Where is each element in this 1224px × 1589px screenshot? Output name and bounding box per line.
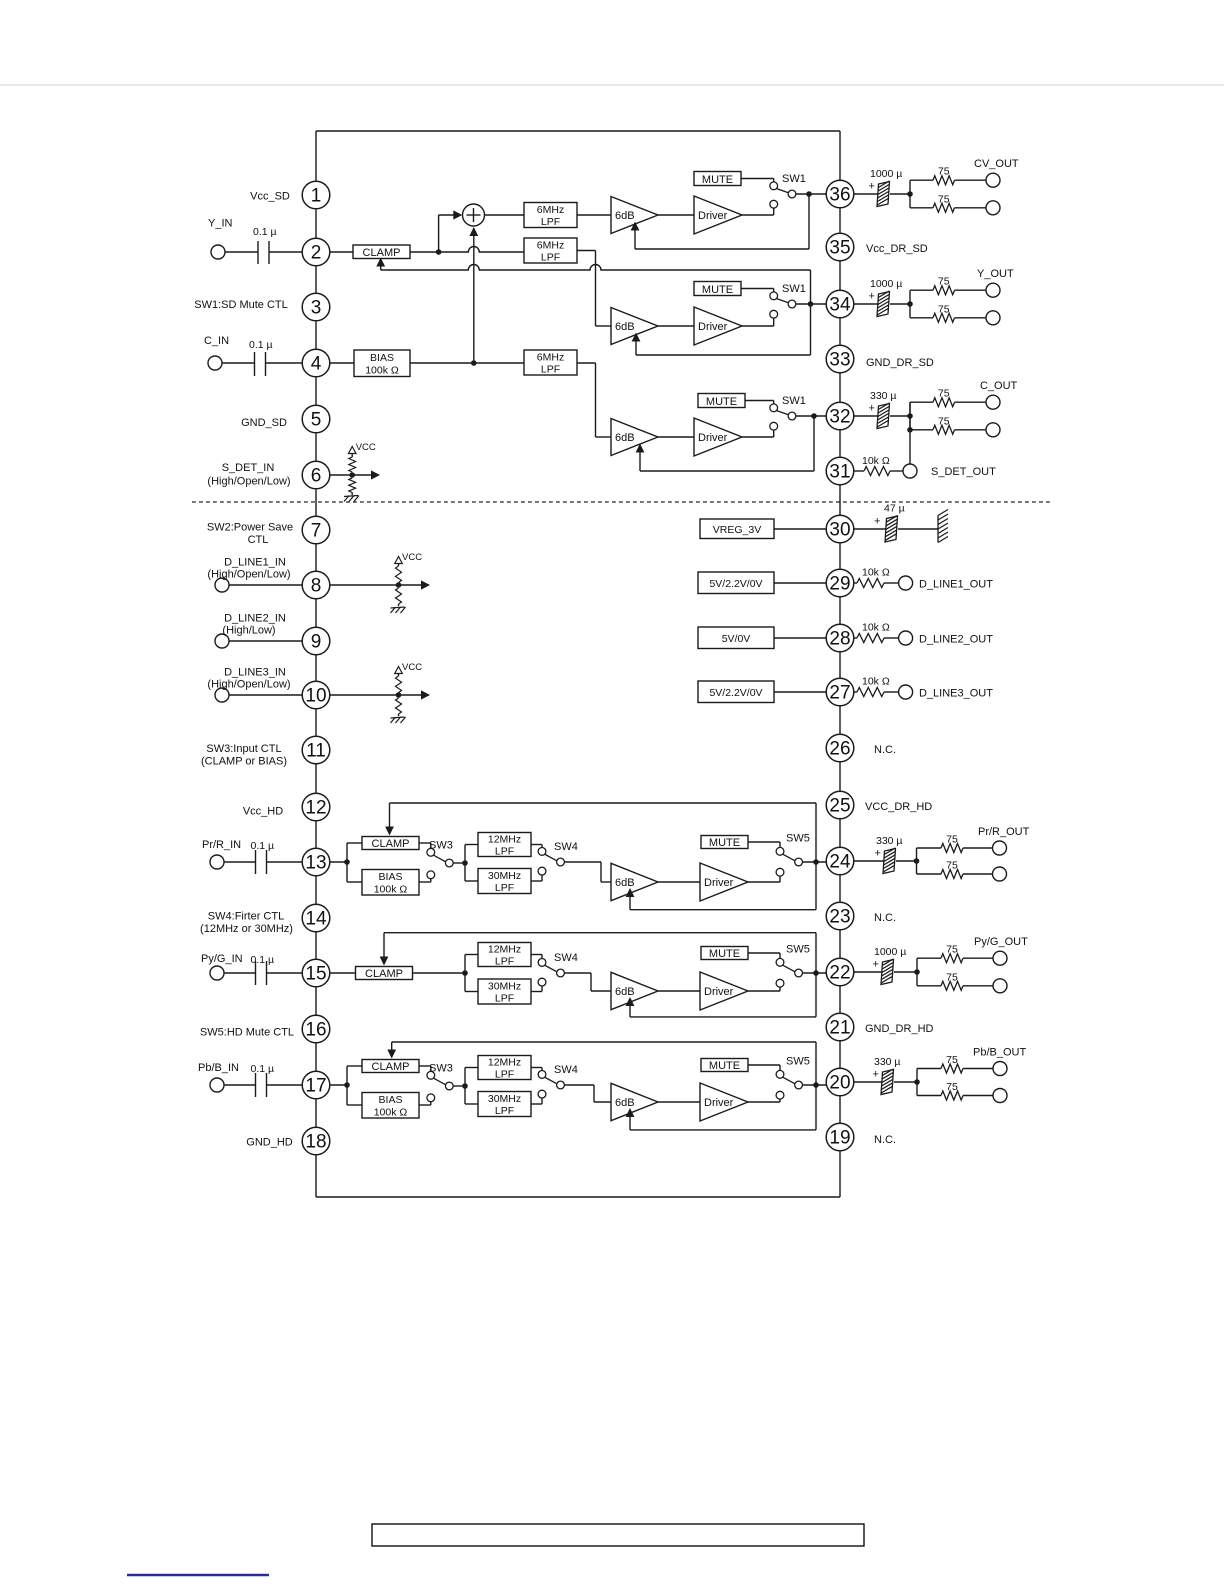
svg-text:SW4: SW4 xyxy=(554,841,578,853)
wire 6dB to Driver (HD) xyxy=(658,881,700,883)
svg-text:6MHz: 6MHz xyxy=(537,239,564,251)
svg-text:D_LINE3_OUT: D_LINE3_OUT xyxy=(919,688,993,700)
op-amp 6dB (CV channel) xyxy=(611,197,658,234)
wire C_IN to C2 xyxy=(222,362,255,364)
wire pin to CLAMP/BIAS split xyxy=(330,1084,347,1086)
wire box to pin (D_LINE3_OUT) xyxy=(774,691,826,693)
node Py/G_IN terminal xyxy=(210,966,224,980)
pin 6 xyxy=(302,461,330,489)
svg-text:Driver: Driver xyxy=(704,877,734,889)
resistor 75 top (pin22) xyxy=(941,954,963,963)
pin 33 xyxy=(826,345,854,373)
svg-text:10: 10 xyxy=(305,686,326,707)
svg-text:13: 13 xyxy=(305,853,326,874)
capacitor 47u xyxy=(885,516,898,542)
svg-text:9: 9 xyxy=(311,632,322,653)
svg-text:3: 3 xyxy=(311,298,322,319)
op-amp Driver (HD) xyxy=(700,1083,748,1121)
svg-text:36: 36 xyxy=(829,185,850,206)
switch SW1 (CV channel) xyxy=(770,182,778,190)
pin 25 xyxy=(826,791,854,819)
wire clamp feedback (HD top) xyxy=(390,802,817,804)
capacitor 330 &#181; (output) (pin20) xyxy=(881,1070,894,1095)
svg-text:10k Ω: 10k Ω xyxy=(862,622,890,634)
scan artifact band xyxy=(0,84,1224,86)
node output junction (pin32) xyxy=(907,413,913,419)
wire summer to 6MHz LPF1 xyxy=(485,214,525,216)
op-amp Driver (HD) xyxy=(700,863,748,901)
svg-text:LPF: LPF xyxy=(495,992,514,1004)
wire feedback right edge (HD) xyxy=(815,803,817,910)
block BIAS 100k (HD) xyxy=(362,870,419,896)
svg-text:Pr/R_OUT: Pr/R_OUT xyxy=(978,826,1030,838)
wire 10k to terminal (D_LINE3_OUT) xyxy=(884,691,899,693)
power VCC pullup (D_LINE1_IN) xyxy=(395,557,403,564)
wire pin to 10k (D_LINE3_OUT) xyxy=(854,691,857,693)
node D_LINE2_IN terminal xyxy=(215,634,229,648)
resistor 75 top (pin36) xyxy=(933,176,955,185)
svg-text:LPF: LPF xyxy=(541,363,560,375)
switch SW3 xyxy=(427,848,435,856)
svg-text:75: 75 xyxy=(946,860,958,872)
wire cap to pin (Pr/R_IN) xyxy=(267,861,303,863)
wire C1 to pin2 xyxy=(269,251,302,253)
pin 28 xyxy=(826,624,854,652)
pin 12 xyxy=(302,793,330,821)
wire SW5 common to pin xyxy=(803,861,827,863)
switch SW5 xyxy=(776,958,784,966)
pin 32 xyxy=(826,402,854,430)
wire cap to output junction (pin24) xyxy=(896,860,917,862)
wire clamp feedback (HD top) xyxy=(392,1041,816,1043)
wire junction to 75R bottom (pin34) xyxy=(910,317,933,319)
wire feedback CV (A1) xyxy=(808,194,810,249)
wire CLAMP to LPF junction xyxy=(413,972,466,974)
svg-text:GND_SD: GND_SD xyxy=(241,417,287,429)
wire 6dB to Driver (CV channel) xyxy=(658,214,694,216)
node input split junction xyxy=(344,859,350,865)
svg-text:16: 16 xyxy=(305,1020,326,1041)
wire split to CLAMP xyxy=(346,843,348,882)
block BIAS 100k (C path) xyxy=(354,350,410,377)
svg-text:LPF: LPF xyxy=(495,955,514,967)
svg-text:SW1: SW1 xyxy=(782,395,806,407)
svg-text:Py/G_IN: Py/G_IN xyxy=(201,953,243,965)
pin 19 xyxy=(826,1123,854,1151)
capacitor 1000 &#181; (output) (pin36) xyxy=(877,182,890,207)
svg-text:330 µ: 330 µ xyxy=(876,835,903,847)
node output junction (HD) xyxy=(813,859,819,865)
wire Py/G_IN to cap xyxy=(224,972,256,974)
pin 21 xyxy=(826,1013,854,1041)
svg-text:14: 14 xyxy=(305,909,327,930)
svg-text:CLAMP: CLAMP xyxy=(363,247,401,259)
svg-text:SW4: SW4 xyxy=(554,1064,578,1076)
wire SW4 common to 6dB amp xyxy=(564,1084,594,1086)
resistor 75 bottom (pin32) xyxy=(933,425,955,434)
svg-text:1000 µ: 1000 µ xyxy=(870,278,902,290)
wire S_DET_OUT up to C output node xyxy=(909,402,911,464)
svg-text:330 µ: 330 µ xyxy=(874,1056,901,1068)
wire D_LINE2_IN to pin xyxy=(229,640,302,642)
svg-text:Pr/R_IN: Pr/R_IN xyxy=(202,839,241,851)
svg-text:(High/Open/Low): (High/Open/Low) xyxy=(207,569,290,581)
svg-text:6dB: 6dB xyxy=(615,986,635,998)
svg-text:VCC: VCC xyxy=(356,442,376,453)
wire SW1 common to pin (Y channel) xyxy=(796,303,826,305)
pin 22 xyxy=(826,958,854,986)
node Pb/B_OUT terminal bottom (pin20) xyxy=(993,1089,1007,1103)
block 6MHz LPF (C path) xyxy=(524,350,577,375)
svg-text:BIAS: BIAS xyxy=(379,1094,403,1106)
arrow feedback into A3 xyxy=(636,444,645,453)
svg-text:D_LINE2_OUT: D_LINE2_OUT xyxy=(919,634,993,646)
node C_IN terminal xyxy=(208,356,222,370)
resistor 10k (S_DET_OUT) xyxy=(864,467,890,476)
resistor 75 top (pin24) xyxy=(941,844,963,853)
svg-text:(12MHz or 30MHz): (12MHz or 30MHz) xyxy=(200,923,293,935)
IC package outline / pin column wires xyxy=(315,131,317,1197)
resistor 75 bottom (pin20) xyxy=(941,1091,963,1100)
svg-text:75: 75 xyxy=(938,276,950,288)
pin 15 xyxy=(302,959,330,987)
wire cap to pin (Pb/B_IN) xyxy=(267,1084,303,1086)
svg-text:Driver: Driver xyxy=(698,432,728,444)
op-amp Driver (C channel) xyxy=(694,418,742,456)
ground pulldown (D_LINE3_IN) xyxy=(398,714,400,716)
wire gain feedback Y (A2) xyxy=(636,354,811,356)
capacitor 0.1u (Pr/R_IN) xyxy=(255,850,257,874)
wire MUTE to SW5 top contact xyxy=(748,952,780,954)
svg-text:CLAMP: CLAMP xyxy=(372,1061,410,1073)
node C output junction xyxy=(811,413,817,419)
capacitor 1000 &#181; (output) (pin22) xyxy=(881,960,894,985)
pin 27 xyxy=(826,678,854,706)
node D_LINE1_IN terminal xyxy=(215,578,229,592)
svg-text:Driver: Driver xyxy=(704,986,734,998)
block CLAMP (HD) xyxy=(362,837,419,850)
summing node U1 (+) xyxy=(463,204,485,226)
pin 31 xyxy=(826,457,854,485)
resistor 75 bottom (pin34) xyxy=(933,313,955,322)
svg-text:0.1 µ: 0.1 µ xyxy=(251,1063,275,1075)
wire split to BIAS xyxy=(347,881,362,883)
wire box to pin (D_LINE2_OUT) xyxy=(774,637,826,639)
block 5V/2.2V/0V (D_LINE3_OUT) xyxy=(698,681,774,703)
op-amp 6dB (HD) xyxy=(611,1083,658,1120)
arrow clamp feedback into CLAMP top xyxy=(387,1050,396,1059)
node D_LINE2_OUT terminal xyxy=(899,631,913,645)
svg-text:SW3:Input CTL: SW3:Input CTL xyxy=(206,743,281,755)
svg-text:26: 26 xyxy=(829,739,850,760)
node output junction (pin34) xyxy=(907,301,913,307)
arrow clamp feedback into CLAMP xyxy=(376,258,385,267)
node on C top branch xyxy=(907,427,913,433)
arrow internal (D_LINE3_IN) xyxy=(421,690,430,699)
footer rectangle xyxy=(372,1524,864,1546)
wire cap to output junction (pin36) xyxy=(890,193,910,195)
wire gain feedback (HD bottom) xyxy=(630,909,816,911)
op-amp Driver (Y channel) xyxy=(694,307,742,345)
pin 3 xyxy=(302,293,330,321)
svg-text:23: 23 xyxy=(829,907,850,928)
node C_OUT terminal top (pin32) xyxy=(986,395,1000,409)
wire Driver to SW5 bottom contact xyxy=(748,881,780,883)
SD/Other section separator (dashed) xyxy=(192,501,1051,503)
block MUTE (C channel) xyxy=(698,394,745,408)
svg-text:Pb/B_OUT: Pb/B_OUT xyxy=(973,1047,1026,1059)
wire CLAMP out with junction riser xyxy=(410,251,439,253)
resistor 75 bottom (pin24) xyxy=(941,870,963,879)
wire SW1 common to pin (C channel) xyxy=(796,415,826,417)
wire SW4 common to 6dB amp xyxy=(564,972,591,974)
block 6MHz LPF (CV path) xyxy=(524,203,577,228)
svg-text:12MHz: 12MHz xyxy=(488,943,521,955)
pin 29 xyxy=(826,569,854,597)
svg-text:10k Ω: 10k Ω xyxy=(862,676,890,688)
wire junction to 75R bottom (pin22) xyxy=(917,985,941,987)
svg-text:GND_DR_HD: GND_DR_HD xyxy=(865,1023,934,1035)
svg-text:+: + xyxy=(873,1069,879,1081)
svg-text:BIAS: BIAS xyxy=(370,352,394,364)
wire pin2 to CLAMP xyxy=(330,251,353,253)
svg-text:LPF: LPF xyxy=(495,1068,514,1080)
svg-text:75: 75 xyxy=(946,971,958,983)
wire cap to output junction (pin34) xyxy=(890,303,910,305)
svg-text:D_LINE1_OUT: D_LINE1_OUT xyxy=(919,579,993,591)
wire gain feedback (HD bottom) xyxy=(630,1129,816,1131)
svg-text:75: 75 xyxy=(938,193,950,205)
capacitor 1000 &#181; (output) (pin34) xyxy=(877,292,890,317)
switch SW1 (C channel) xyxy=(770,404,778,412)
svg-text:27: 27 xyxy=(829,683,850,704)
wire pin to internal (D_LINE3_IN) xyxy=(330,694,423,696)
op-amp 6dB (HD) xyxy=(611,863,658,900)
pin 35 xyxy=(826,233,854,261)
wire pin to 1000 &#181; cap (pin34) xyxy=(854,303,878,305)
svg-text:C_OUT: C_OUT xyxy=(980,380,1018,392)
node divider junction (D_LINE3_IN) xyxy=(396,692,402,698)
pin 7 xyxy=(302,516,330,544)
svg-text:SW1:SD Mute CTL: SW1:SD Mute CTL xyxy=(194,299,288,311)
wire MUTE to SW1 top contact (C channel) xyxy=(745,400,774,402)
wire SW1 common to pin (CV channel) xyxy=(796,193,826,195)
node Y_OUT terminal bottom (pin34) xyxy=(986,311,1000,325)
node Pr/R_OUT terminal top (pin24) xyxy=(993,841,1007,855)
arrow feedback into A1 xyxy=(631,222,640,231)
wire pin to 1000 &#181; cap (pin22) xyxy=(854,971,882,973)
svg-text:CTL: CTL xyxy=(248,534,269,546)
svg-text:15: 15 xyxy=(305,964,326,985)
node LPF split junction xyxy=(462,970,468,976)
block MUTE (HD) xyxy=(701,836,748,849)
wire Driver to SW1 bottom contact (CV channel) xyxy=(742,214,774,216)
svg-text:CLAMP: CLAMP xyxy=(372,838,410,850)
svg-text:+: + xyxy=(874,516,880,528)
svg-text:Pb/B_IN: Pb/B_IN xyxy=(198,1062,239,1074)
node output junction (HD) xyxy=(813,1082,819,1088)
svg-text:75: 75 xyxy=(946,1081,958,1093)
arrow into summer left input xyxy=(453,210,462,219)
wire 6dB to Driver (Y channel) xyxy=(658,325,694,327)
svg-text:20: 20 xyxy=(829,1073,850,1094)
svg-text:75: 75 xyxy=(938,388,950,400)
svg-text:SW5: SW5 xyxy=(786,944,810,956)
block 5V/2.2V/0V (D_LINE1_OUT) xyxy=(698,572,774,594)
svg-text:35: 35 xyxy=(829,238,850,259)
resistor 10k (D_LINE2_OUT) xyxy=(857,634,884,643)
capacitor C2 0.1u (C_IN) xyxy=(254,352,256,376)
wire 10k to terminal (D_LINE2_OUT) xyxy=(884,637,899,639)
svg-text:VCC: VCC xyxy=(402,662,422,673)
svg-text:5: 5 xyxy=(311,410,322,431)
svg-text:34: 34 xyxy=(829,295,851,316)
svg-text:LPF: LPF xyxy=(541,216,560,228)
arrow internal (D_LINE1_IN) xyxy=(421,580,430,589)
wire box to pin (D_LINE1_OUT) xyxy=(774,582,826,584)
node Pb/B_OUT terminal top (pin20) xyxy=(993,1062,1007,1076)
node CV_OUT terminal top (pin36) xyxy=(986,173,1000,187)
switch SW5 xyxy=(776,1070,784,1078)
resistor pullup (D_LINE3_IN) xyxy=(396,676,402,693)
svg-text:30MHz: 30MHz xyxy=(488,980,521,992)
wire Pb/B_IN to cap xyxy=(224,1084,256,1086)
svg-text:SW1: SW1 xyxy=(782,283,806,295)
wire junction to 75R bottom (pin24) xyxy=(917,873,942,875)
pin 13 xyxy=(302,848,330,876)
footer blue underline xyxy=(127,1574,269,1577)
svg-text:D_LINE2_IN: D_LINE2_IN xyxy=(224,613,286,625)
block MUTE (HD) xyxy=(701,947,748,960)
wire LPF3 to 6dB amp A3 xyxy=(577,362,596,364)
wire junction to 75R bottom (pin20) xyxy=(917,1095,941,1097)
svg-text:6dB: 6dB xyxy=(615,877,635,889)
op-amp Driver (CV channel) xyxy=(694,196,742,234)
capacitor C1 0.1u (Y_IN) xyxy=(257,241,259,264)
wire pin to 330 &#181; cap (pin20) xyxy=(854,1081,882,1083)
wire junction to 75R top (pin36) xyxy=(909,180,911,208)
svg-text:30MHz: 30MHz xyxy=(488,870,521,882)
wire 30MHz LPF to SW4 bottom contact xyxy=(531,880,542,882)
node output junction (pin22) xyxy=(914,969,920,975)
wire pin30 to 47u cap xyxy=(854,528,886,530)
svg-text:31: 31 xyxy=(829,462,850,483)
switch SW1 (Y channel) xyxy=(770,292,778,300)
pin 17 xyxy=(302,1071,330,1099)
svg-text:22: 22 xyxy=(829,963,850,984)
wire junction to 75R top (pin22) xyxy=(916,958,918,986)
node output junction (HD) xyxy=(813,970,819,976)
svg-text:+: + xyxy=(873,959,879,971)
svg-text:100k Ω: 100k Ω xyxy=(374,883,408,895)
wire junction to 75R bottom (pin36) xyxy=(910,207,933,209)
svg-text:LPF: LPF xyxy=(495,1105,514,1117)
svg-text:32: 32 xyxy=(829,407,850,428)
svg-text:29: 29 xyxy=(829,574,850,595)
pin 26 xyxy=(826,734,854,762)
svg-text:CV_OUT: CV_OUT xyxy=(974,158,1019,170)
arrow feedback into A2 xyxy=(632,333,641,342)
resistor 10k (D_LINE1_OUT) xyxy=(857,579,884,588)
arrow gain feedback into 6dB xyxy=(626,997,635,1006)
wire CLAMP to SW3 top contact xyxy=(419,842,431,844)
wire junction to 12MHz LPF xyxy=(465,954,478,956)
svg-text:C_IN: C_IN xyxy=(204,335,229,347)
pin 5 xyxy=(302,405,330,433)
svg-text:Vcc_DR_SD: Vcc_DR_SD xyxy=(866,243,928,255)
resistor pulldown pin6 xyxy=(349,478,356,493)
wire Pr/R_IN to cap xyxy=(224,861,256,863)
svg-text:D_LINE1_IN: D_LINE1_IN xyxy=(224,557,286,569)
node pin6 divider junction xyxy=(349,472,355,478)
wire junction to 75R bottom (pin32) xyxy=(910,429,933,431)
svg-text:MUTE: MUTE xyxy=(709,837,740,849)
svg-text:MUTE: MUTE xyxy=(706,396,737,408)
wire feedback C (A3) xyxy=(813,416,815,471)
svg-text:GND_DR_SD: GND_DR_SD xyxy=(866,357,934,369)
wire clamp feedback Y (to CLAMP) xyxy=(810,270,812,355)
pin 1 xyxy=(302,181,330,209)
wire MUTE to SW5 top contact xyxy=(748,841,780,843)
svg-text:SW5: SW5 xyxy=(786,1056,810,1068)
capacitor 330 &#181; (output) (pin24) xyxy=(883,849,896,874)
svg-text:Vcc_HD: Vcc_HD xyxy=(243,806,283,818)
op-amp 6dB (HD) xyxy=(611,972,658,1009)
block BIAS 100k (HD) xyxy=(362,1093,419,1119)
wire pin to 330 &#181; cap (pin24) xyxy=(854,860,884,862)
power VCC (pin6 pullup) xyxy=(348,447,356,454)
wire junction to 12MHz LPF xyxy=(465,844,478,846)
wire 30MHz LPF to SW4 bottom contact xyxy=(531,991,542,993)
svg-text:6dB: 6dB xyxy=(615,210,635,222)
block 12MHz LPF xyxy=(478,833,531,857)
svg-text:VCC: VCC xyxy=(402,552,422,563)
arrow gain feedback into 6dB xyxy=(626,888,635,897)
pin 20 xyxy=(826,1068,854,1096)
svg-text:GND_HD: GND_HD xyxy=(246,1137,293,1149)
wire SW3 common to LPF junction xyxy=(453,862,465,864)
ground (pin6 pulldown) xyxy=(351,493,353,496)
wire 6dB to Driver (HD) xyxy=(658,990,700,992)
capacitor 0.1u (Pb/B_IN) xyxy=(255,1073,257,1097)
block CLAMP (HD) xyxy=(356,967,413,980)
wire cap to output junction (pin32) xyxy=(890,415,910,417)
svg-text:MUTE: MUTE xyxy=(709,948,740,960)
wire pin6 to comparator xyxy=(330,474,373,476)
wire 47u cap to ground xyxy=(898,528,938,530)
resistor 75 bottom (pin22) xyxy=(941,981,963,990)
resistor pulldown (D_LINE3_IN) xyxy=(396,698,402,714)
wire Driver to SW1 bottom contact (C channel) xyxy=(742,436,774,438)
switch SW4 xyxy=(538,959,546,967)
svg-text:0.1 µ: 0.1 µ xyxy=(251,840,275,852)
block VREG_3V xyxy=(700,519,774,539)
wire pin4 to BIAS xyxy=(330,362,354,364)
svg-text:6MHz: 6MHz xyxy=(537,204,564,216)
wire junction to 30MHz LPF xyxy=(465,1103,478,1105)
node Pb/B_IN terminal xyxy=(210,1078,224,1092)
pin 4 xyxy=(302,349,330,377)
pin 23 xyxy=(826,902,854,930)
svg-text:Driver: Driver xyxy=(698,210,728,222)
node C_OUT terminal bottom (pin32) xyxy=(986,423,1000,437)
wire BIAS to SW3 bottom contact xyxy=(419,881,431,883)
svg-text:12MHz: 12MHz xyxy=(488,833,521,845)
wire 6dB to Driver (HD) xyxy=(658,1101,700,1103)
svg-text:4: 4 xyxy=(311,354,322,375)
wire junction to 30MHz LPF xyxy=(465,880,478,882)
ground (47u) xyxy=(937,516,939,543)
